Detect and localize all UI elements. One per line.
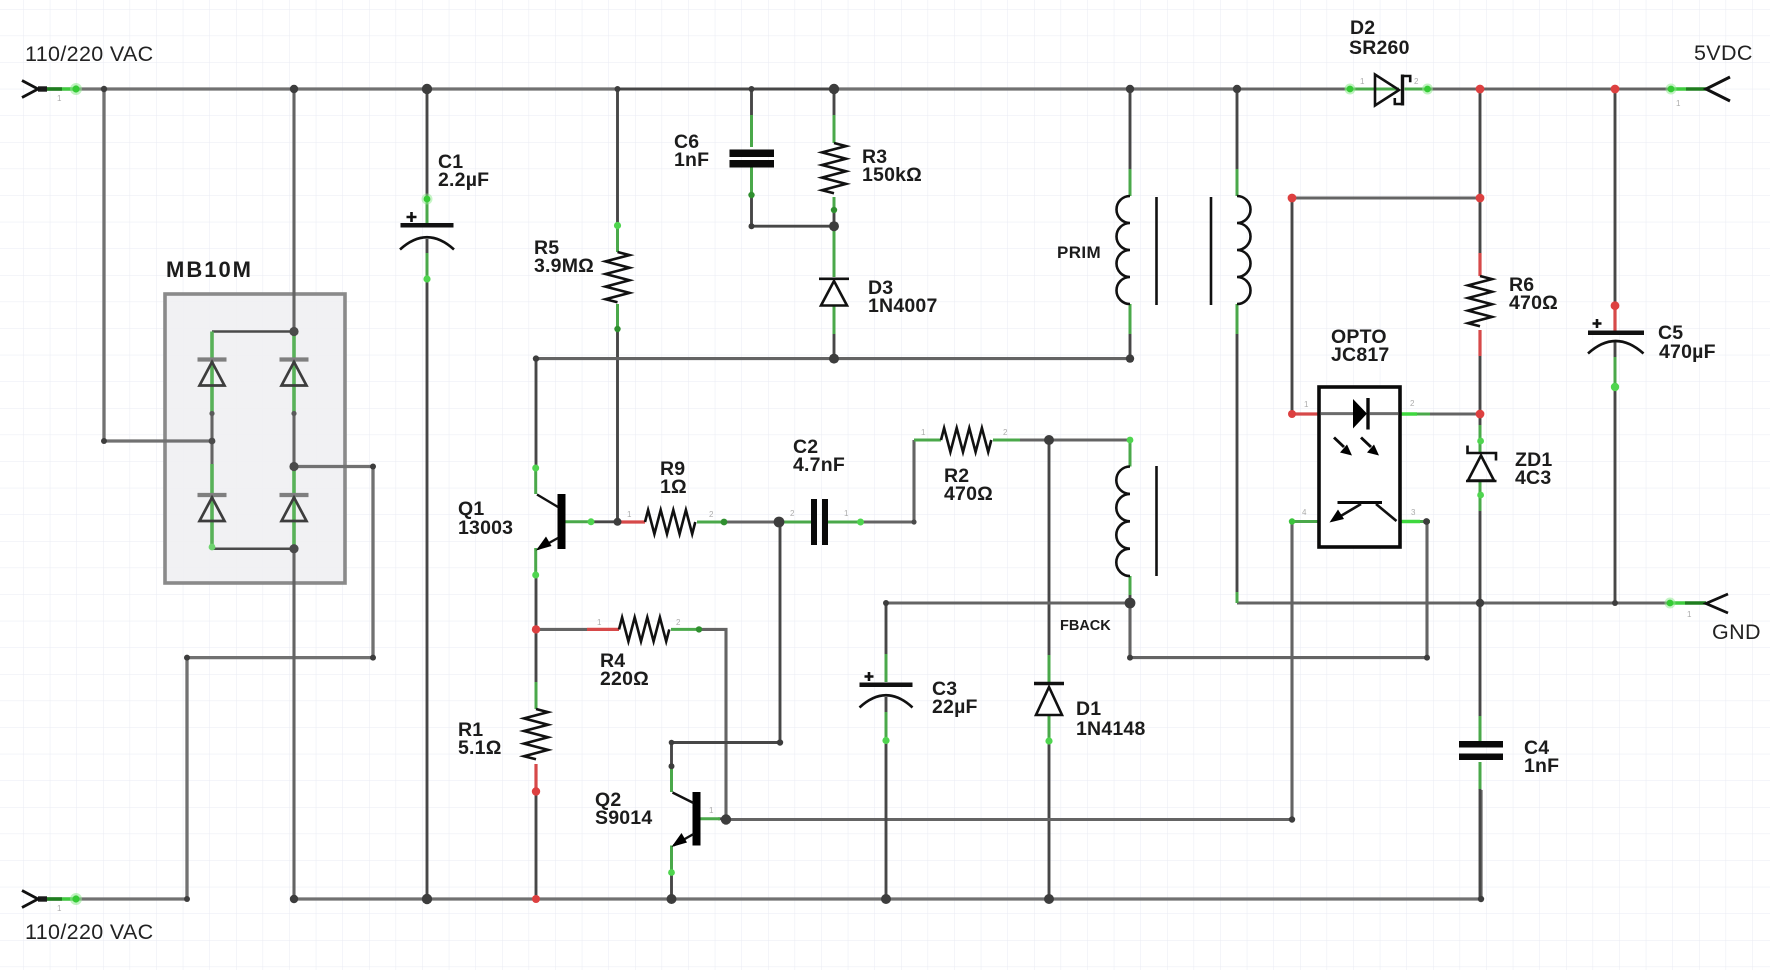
svg-text:1: 1 bbox=[1676, 99, 1681, 108]
svg-text:GND: GND bbox=[1712, 620, 1761, 644]
svg-text:1nF: 1nF bbox=[1524, 755, 1559, 777]
svg-text:1: 1 bbox=[844, 509, 849, 518]
svg-text:1: 1 bbox=[627, 510, 632, 519]
svg-text:S9014: S9014 bbox=[595, 807, 652, 829]
svg-text:1: 1 bbox=[1687, 610, 1692, 619]
svg-text:2: 2 bbox=[1410, 399, 1415, 408]
svg-text:150kΩ: 150kΩ bbox=[862, 164, 922, 186]
svg-text:3.9MΩ: 3.9MΩ bbox=[534, 255, 594, 277]
svg-text:1: 1 bbox=[1304, 400, 1309, 409]
svg-text:2: 2 bbox=[1003, 428, 1008, 437]
svg-text:470Ω: 470Ω bbox=[1509, 292, 1558, 314]
svg-text:3: 3 bbox=[1411, 508, 1416, 517]
svg-text:1Ω: 1Ω bbox=[660, 476, 687, 498]
svg-text:2: 2 bbox=[676, 618, 681, 627]
svg-text:MB10M: MB10M bbox=[166, 257, 253, 282]
svg-text:4: 4 bbox=[1302, 508, 1307, 517]
svg-text:2: 2 bbox=[709, 510, 714, 519]
svg-text:220Ω: 220Ω bbox=[600, 668, 649, 690]
svg-text:1N4007: 1N4007 bbox=[868, 295, 938, 317]
svg-text:5.1Ω: 5.1Ω bbox=[458, 737, 502, 759]
svg-text:1N4148: 1N4148 bbox=[1076, 718, 1146, 740]
svg-text:PRIM: PRIM bbox=[1057, 243, 1101, 262]
svg-text:13003: 13003 bbox=[458, 517, 513, 539]
svg-text:1nF: 1nF bbox=[674, 149, 709, 171]
svg-text:SR260: SR260 bbox=[1349, 37, 1410, 59]
svg-text:1: 1 bbox=[1360, 77, 1365, 86]
svg-text:22µF: 22µF bbox=[932, 696, 978, 718]
svg-text:FBACK: FBACK bbox=[1060, 618, 1111, 634]
svg-text:470Ω: 470Ω bbox=[944, 483, 993, 505]
svg-text:1: 1 bbox=[57, 94, 62, 103]
svg-text:1: 1 bbox=[921, 428, 926, 437]
svg-text:D1: D1 bbox=[1076, 698, 1101, 720]
svg-text:D2: D2 bbox=[1350, 17, 1375, 39]
svg-text:4.7nF: 4.7nF bbox=[793, 454, 845, 476]
svg-text:1: 1 bbox=[57, 904, 62, 913]
svg-text:2: 2 bbox=[790, 509, 795, 518]
svg-text:4C3: 4C3 bbox=[1515, 467, 1551, 489]
svg-text:JC817: JC817 bbox=[1331, 344, 1389, 366]
svg-text:2.2µF: 2.2µF bbox=[438, 169, 489, 191]
svg-text:470µF: 470µF bbox=[1659, 341, 1716, 363]
svg-text:1: 1 bbox=[709, 806, 714, 815]
svg-text:5VDC: 5VDC bbox=[1694, 41, 1753, 65]
svg-text:110/220 VAC: 110/220 VAC bbox=[25, 920, 154, 944]
svg-text:110/220 VAC: 110/220 VAC bbox=[25, 42, 154, 66]
svg-text:1: 1 bbox=[597, 618, 602, 627]
svg-text:2: 2 bbox=[1414, 77, 1419, 86]
